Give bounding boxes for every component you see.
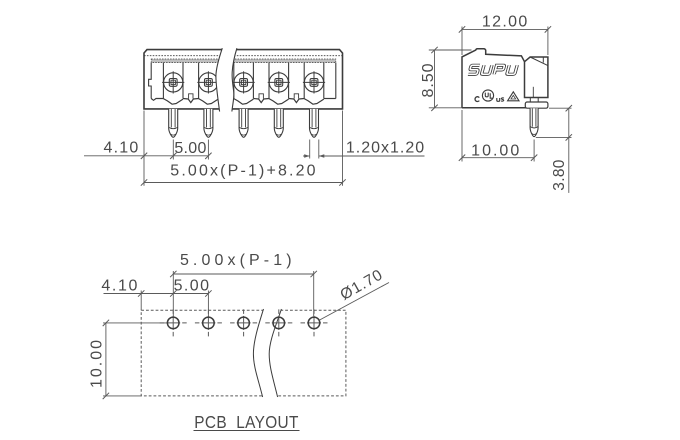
side view bottom edge [462, 107, 526, 109]
extension line hole5 vertical [313, 271, 315, 316]
PCB break line right [269, 309, 281, 397]
side view pin seat collar [525, 102, 548, 108]
svg-text:10.00: 10.00 [89, 338, 106, 388]
extension line pin2 [207, 140, 209, 160]
PCB break line left [253, 309, 263, 397]
PCB hole 1 [160, 309, 187, 336]
dimension 5.00x(P-1) line [170, 271, 317, 277]
screw clamp position 4 [268, 71, 290, 93]
extension line pin1 [172, 140, 174, 160]
front view partition walls [163, 63, 323, 99]
dimension text 1.20x1.20 [346, 140, 425, 157]
extension line hole1 vertical [172, 271, 174, 316]
svg-text:12.00: 12.00 [482, 14, 529, 31]
solder pin 3 front view [239, 109, 248, 137]
svg-text:4.10: 4.10 [101, 277, 139, 294]
solder pin 5 front view [310, 109, 319, 137]
dimension 4.10 / 5.00 line [84, 153, 212, 159]
dimension 1.20x1.20 leader with arrows [303, 154, 425, 158]
dimension text 12.00 [482, 14, 529, 31]
solder pin 2 front view [204, 109, 213, 137]
dimension text 5.00 [174, 140, 206, 157]
dimension text 4.10 pcb [101, 277, 139, 294]
side view body outline [462, 49, 548, 108]
front view inner left wall [149, 63, 152, 99]
VDE triangle mark [508, 92, 519, 101]
dimension text diameter 1.70 [337, 266, 386, 304]
svg-text:5.00: 5.00 [174, 140, 206, 157]
PCB outline dashed rect [141, 310, 346, 396]
extension line hole2 vertical [207, 291, 209, 317]
dimension 10.00 pcb line [103, 320, 109, 399]
dimension text 5.00 pcb [174, 277, 211, 294]
dimension text 4.10 [104, 140, 140, 157]
side view solder pin [530, 108, 538, 136]
side view front wall inner line [542, 57, 544, 63]
extension lines 12.00 [462, 27, 548, 56]
extension line body right edge [342, 111, 344, 186]
svg-text:5.00x(P-1): 5.00x(P-1) [180, 252, 296, 269]
PCB hole 5 [301, 309, 328, 336]
extension lines 10.00 [462, 110, 534, 162]
dimension text 10.00 pcb [89, 338, 106, 388]
extension lines pin5 width [310, 140, 319, 159]
dimension text 5.00x(P-1)+8.20 [170, 162, 317, 179]
svg-text:3.80: 3.80 [551, 159, 568, 190]
svg-text:PCB LAYOUT: PCB LAYOUT [194, 413, 298, 432]
svg-text:4.10: 4.10 [104, 140, 140, 157]
PCB hole 4 [265, 309, 292, 336]
svg-text:10.00: 10.00 [471, 142, 521, 159]
dimension 12.00 line [459, 26, 551, 32]
dimension 3.80 line [566, 105, 572, 193]
PCB hole 3 [230, 309, 257, 336]
front view outer body [144, 50, 343, 109]
front view wavy bottom contour [151, 99, 336, 105]
solder pin 1 front view [169, 109, 178, 137]
screw clamp position 2 [197, 71, 219, 93]
PCB break gap [253, 309, 281, 398]
dimension 8.50 line [431, 47, 437, 111]
SUPU logo [468, 65, 517, 74]
front view break line right [232, 48, 237, 111]
side view pin inside cavity [530, 87, 538, 102]
svg-text:1.20x1.20: 1.20x1.20 [346, 140, 425, 157]
front view break line left [216, 48, 222, 111]
side view chamfer diagonal [530, 57, 548, 66]
extension line pcb left edge [140, 291, 142, 311]
title PCB LAYOUT [194, 413, 300, 432]
extension lines 10.00 pcb [103, 323, 167, 396]
screw clamp position 5 [303, 71, 325, 93]
dimension text 10.00 [471, 142, 521, 159]
extension lines 8.50 [429, 50, 472, 108]
solder pin 4 front view [274, 109, 283, 137]
dimension 4.10 / 5.00 pcb line [104, 290, 212, 296]
dimension text 3.80 [551, 159, 568, 190]
front view inner right wall [335, 63, 337, 99]
UL certification mark [475, 90, 504, 102]
front view top inner line [144, 55, 343, 57]
dimension 10.00 line [459, 155, 538, 161]
extension line body left edge [143, 111, 145, 186]
svg-text:8.50: 8.50 [420, 63, 437, 98]
svg-text:5.00x(P-1)+8.20: 5.00x(P-1)+8.20 [170, 162, 317, 179]
front view break gap [216, 48, 237, 111]
screw clamp position 1 [162, 71, 184, 93]
screw clamp position 3 [233, 71, 255, 93]
dimension text 8.50 [420, 63, 437, 98]
dimension 5.00x(P-1)+8.20 line [141, 179, 346, 185]
svg-text:5.00: 5.00 [174, 277, 211, 294]
PCB hole 2 [195, 309, 222, 336]
extension lines 3.80 [536, 108, 572, 137]
dimension text 5.00x(P-1) [180, 252, 296, 269]
leader diameter 1.70 [319, 283, 389, 321]
front view gray band [151, 59, 336, 63]
